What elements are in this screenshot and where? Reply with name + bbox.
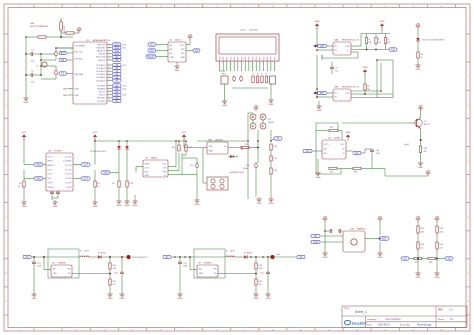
- svg-text:10k: 10k: [367, 89, 370, 91]
- svg-text:PC2 ADC2: PC2 ADC2: [96, 73, 105, 76]
- svg-text:10 OP2: 10 OP2: [65, 182, 71, 184]
- svg-text:1: 1: [109, 79, 110, 81]
- svg-text:SDA: SDA: [180, 56, 185, 59]
- svg-text:C14: C14: [183, 263, 186, 265]
- svg-text:10uH: 10uH: [230, 251, 235, 253]
- svg-text:+5V: +5V: [254, 105, 259, 108]
- svg-text:RST: RST: [60, 53, 65, 55]
- svg-text:OUT1: OUT1: [324, 144, 329, 146]
- svg-text:R27: R27: [415, 262, 418, 264]
- svg-text:D11: D11: [115, 51, 120, 53]
- svg-text:Sheet_1: Sheet_1: [355, 310, 367, 314]
- svg-text:PC6 RESET: PC6 RESET: [75, 45, 86, 47]
- svg-text:47k: 47k: [259, 284, 262, 286]
- svg-text:+5V: +5V: [378, 216, 383, 219]
- svg-text:GND: GND: [24, 102, 29, 104]
- svg-text:GND: GND: [32, 298, 37, 300]
- svg-text:9 ON2: 9 ON2: [66, 187, 71, 189]
- svg-text:10k: 10k: [368, 42, 371, 44]
- svg-text:PD7 AIN1: PD7 AIN1: [97, 84, 105, 87]
- svg-text:PD6 AIN0: PD6 AIN0: [97, 87, 105, 90]
- svg-text:TRIG: TRIG: [36, 165, 42, 167]
- svg-text:1: 1: [263, 63, 264, 65]
- svg-text:9V: 9V: [300, 257, 303, 259]
- svg-text:DB107: DB107: [268, 122, 275, 124]
- svg-text:S2-1272T-A4B3V0E: S2-1272T-A4B3V0E: [30, 25, 49, 28]
- svg-text:R16: R16: [274, 170, 277, 172]
- svg-text:1: 1: [109, 73, 110, 75]
- svg-text:1: 1: [230, 63, 231, 65]
- svg-text:+5V: +5V: [418, 105, 423, 108]
- svg-text:GND: GND: [93, 206, 98, 208]
- svg-text:GND: GND: [378, 257, 383, 259]
- svg-text:R25: R25: [440, 228, 443, 230]
- svg-text:PD2 INT0: PD2 INT0: [97, 101, 105, 103]
- svg-text:VCC: VCC: [162, 164, 167, 166]
- svg-text:GND: GND: [22, 206, 27, 208]
- svg-text:9V: 9V: [277, 139, 280, 141]
- svg-text:VO: VO: [224, 146, 227, 148]
- svg-text:R25: R25: [421, 228, 424, 230]
- svg-text:SW: SW: [53, 269, 56, 271]
- svg-text:PC2102W-4734+G: PC2102W-4734+G: [90, 151, 107, 153]
- svg-text:MT3608: MT3608: [58, 262, 66, 264]
- svg-text:GND: GND: [418, 167, 423, 169]
- svg-text:C13: C13: [246, 165, 249, 167]
- svg-text:AIN: AIN: [320, 45, 324, 48]
- svg-text:THR: THR: [162, 172, 167, 174]
- svg-text:1k: 1k: [97, 186, 99, 188]
- svg-text:GND: GND: [257, 203, 262, 205]
- svg-text:47k: 47k: [113, 284, 116, 286]
- svg-text:VCC: VCC: [22, 132, 27, 134]
- svg-text:+5V: +5V: [416, 23, 421, 26]
- svg-text:PB6 XTAL: PB6 XTAL: [75, 73, 84, 76]
- svg-text:1: 1: [245, 63, 246, 65]
- svg-text:BIN: BIN: [320, 93, 324, 95]
- svg-text:GND: GND: [266, 298, 271, 300]
- svg-text:1: 1: [109, 70, 110, 72]
- svg-text:GND: GND: [222, 105, 227, 107]
- svg-text:GND: GND: [380, 21, 385, 23]
- svg-text:GND: GND: [346, 132, 351, 134]
- svg-text:GND: GND: [75, 95, 80, 97]
- svg-text:VCC: VCC: [341, 144, 346, 146]
- svg-text:1: 1: [259, 63, 260, 65]
- svg-text:R22: R22: [354, 172, 357, 174]
- svg-text:REF 2: REF 2: [48, 161, 53, 163]
- svg-text:LF2 5: LF2 5: [48, 174, 53, 176]
- svg-text:+5V: +5V: [188, 34, 193, 37]
- svg-text:GND: GND: [269, 104, 274, 106]
- svg-text:1: 1: [109, 46, 110, 48]
- svg-text:1: 1: [109, 93, 110, 95]
- svg-text:GND: GND: [254, 298, 259, 300]
- svg-text:C14: C14: [37, 263, 40, 265]
- svg-text:R14: R14: [274, 146, 277, 148]
- svg-text:VW-VCXE VCC: VW-VCXE VCC: [132, 257, 148, 259]
- svg-text:SCL: SCL: [150, 45, 155, 47]
- svg-text:11 ON1: 11 ON1: [65, 178, 71, 180]
- svg-text:47k: 47k: [424, 151, 427, 153]
- svg-text:4x1N4007 SOD: 4x1N4007 SOD: [230, 172, 244, 174]
- svg-text:IN 6: IN 6: [48, 178, 51, 180]
- svg-text:1: 1: [237, 63, 238, 65]
- svg-text:BC547: BC547: [424, 124, 430, 126]
- svg-text:GND: GND: [315, 21, 320, 23]
- svg-text:+5V: +5V: [77, 27, 82, 30]
- svg-text:Drawn By:: Drawn By:: [400, 324, 410, 327]
- svg-text:LCD1602: LCD1602: [249, 30, 259, 32]
- svg-text:MT3608: MT3608: [204, 262, 212, 264]
- svg-text:VIN: VIN: [209, 146, 213, 148]
- svg-text:R24: R24: [259, 281, 262, 283]
- svg-text:DC: DC: [355, 153, 359, 155]
- svg-text:10k: 10k: [378, 42, 381, 44]
- svg-text:15 DGND: 15 DGND: [63, 161, 72, 163]
- svg-text:100k: 100k: [421, 232, 425, 234]
- svg-text:1: 1: [256, 63, 257, 65]
- svg-text:GND: GND: [53, 206, 58, 208]
- svg-text:R11: R11: [172, 147, 175, 149]
- svg-text:+5V: +5V: [416, 216, 421, 219]
- svg-text:100k: 100k: [440, 232, 444, 234]
- svg-text:IN-: IN-: [335, 50, 338, 52]
- svg-text:OUT: OUT: [83, 179, 88, 181]
- svg-text:1: 1: [241, 63, 242, 65]
- svg-text:R23: R23: [113, 265, 116, 267]
- svg-text:RX: RX: [61, 60, 65, 62]
- svg-text:PB3 MOSI: PB3 MOSI: [97, 51, 106, 53]
- svg-text:Cds1: Cds1: [404, 144, 410, 146]
- svg-text:Company:: Company:: [367, 319, 377, 321]
- svg-text:GND: GND: [125, 205, 130, 207]
- svg-text:OUT: OUT: [83, 165, 88, 167]
- svg-text:D2 SS34: D2 SS34: [244, 253, 252, 255]
- svg-text:PT2399: PT2399: [54, 150, 62, 152]
- svg-text:1: 1: [267, 63, 268, 65]
- svg-text:1: 1: [219, 63, 220, 65]
- svg-text:220k: 220k: [259, 268, 263, 270]
- svg-text:IN1-: IN1-: [324, 149, 328, 151]
- svg-text:PD4 T0: PD4 T0: [99, 95, 105, 97]
- svg-text:5V: 5V: [166, 257, 169, 259]
- svg-text:R26: R26: [421, 244, 424, 246]
- svg-text:D2 SS34: D2 SS34: [98, 253, 106, 255]
- svg-text:Sheet:: Sheet:: [438, 318, 445, 321]
- svg-text:GND: GND: [63, 95, 68, 97]
- svg-text:GND: GND: [175, 70, 180, 72]
- svg-text:RomanZuniga: RomanZuniga: [417, 325, 432, 327]
- svg-text:PC4 ADC4: PC4 ADC4: [96, 67, 105, 70]
- svg-text:R23: R23: [259, 265, 262, 267]
- svg-text:Cds: Cds: [376, 150, 380, 152]
- svg-text:TRIG: TRIG: [103, 173, 109, 175]
- svg-text:GND: GND: [195, 204, 200, 206]
- svg-text:IN-: IN-: [335, 97, 338, 99]
- svg-text:SDA: SDA: [150, 50, 155, 53]
- svg-text:12 OP1: 12 OP1: [65, 174, 71, 176]
- svg-text:TRIG: TRIG: [36, 179, 42, 181]
- svg-text:HG7881CP-A +5V: HG7881CP-A +5V: [342, 38, 360, 41]
- svg-text:1: 1: [109, 49, 110, 51]
- svg-text:1: 1: [109, 43, 110, 45]
- svg-text:Your Company: Your Company: [385, 318, 402, 321]
- svg-text:R17: R17: [330, 127, 333, 129]
- svg-text:PD3 INT1: PD3 INT1: [97, 98, 105, 100]
- svg-text:VIN 5V: VIN 5V: [64, 26, 66, 33]
- svg-text:PB4 MISO: PB4 MISO: [97, 47, 106, 49]
- svg-text:GND: GND: [323, 257, 328, 259]
- svg-text:PC0 ADC0: PC0 ADC0: [96, 79, 105, 82]
- svg-text:TX: TX: [61, 74, 64, 76]
- svg-text:GND: GND: [120, 298, 125, 300]
- svg-text:PB2 SS: PB2 SS: [99, 54, 106, 56]
- svg-text:2023-08-19: 2023-08-19: [378, 325, 390, 327]
- svg-text:LM393: LM393: [334, 137, 341, 139]
- svg-text:PD1 TXD: PD1 TXD: [75, 51, 84, 53]
- svg-text:D10: D10: [115, 54, 120, 56]
- svg-text:GND: GND: [363, 67, 368, 69]
- svg-text:GND: GND: [53, 273, 58, 275]
- svg-text:GND: GND: [269, 203, 274, 205]
- svg-text:AGND 3: AGND 3: [48, 164, 55, 167]
- svg-text:NE555: NE555: [151, 157, 158, 159]
- svg-text:PC123-NP-A7SH-E: PC123-NP-A7SH-E: [428, 39, 445, 42]
- svg-text:GND: GND: [117, 205, 122, 207]
- svg-text:1: 1: [109, 90, 110, 92]
- svg-text:R21: R21: [330, 172, 333, 174]
- svg-text:PAM8403: PAM8403: [357, 227, 367, 230]
- svg-text:REV:: REV:: [438, 310, 444, 312]
- svg-text:+5V: +5V: [435, 216, 440, 219]
- svg-text:I2: I2: [343, 153, 345, 155]
- svg-text:OUT 7: OUT 7: [48, 182, 54, 184]
- svg-text:C15: C15: [260, 273, 263, 275]
- svg-text:INR: INR: [314, 242, 318, 244]
- svg-text:1: 1: [109, 76, 110, 78]
- svg-text:1: 1: [270, 63, 271, 65]
- svg-text:1: 1: [252, 63, 253, 65]
- svg-text:10k: 10k: [387, 42, 390, 44]
- svg-text:5V: 5V: [26, 257, 29, 259]
- svg-text:AO1: AO1: [391, 49, 396, 52]
- svg-text:SW: SW: [199, 269, 202, 271]
- svg-text:R13: R13: [245, 144, 248, 146]
- svg-text:470uF: 470uF: [243, 168, 249, 170]
- svg-text:R10: R10: [130, 183, 133, 185]
- svg-text:TRIG: TRIG: [145, 164, 150, 166]
- svg-text:R26: R26: [440, 244, 443, 246]
- svg-text:GND: GND: [133, 205, 138, 207]
- svg-text:U2A: U2A: [334, 38, 339, 41]
- svg-text:1: 1: [109, 52, 110, 54]
- svg-text:GND: GND: [178, 298, 183, 300]
- svg-text:R9: R9: [112, 183, 114, 185]
- svg-text:220k: 220k: [113, 268, 117, 270]
- svg-text:1: 1: [109, 59, 110, 61]
- svg-text:GND: GND: [435, 277, 440, 279]
- svg-text:24C02: 24C02: [175, 40, 182, 42]
- svg-text:PD5 T1: PD5 T1: [99, 92, 105, 94]
- svg-text:14 CC0: 14 CC0: [65, 165, 71, 167]
- svg-text:ATMEGA328P-PU: ATMEGA328P-PU: [93, 39, 111, 42]
- svg-text:10k: 10k: [440, 248, 443, 250]
- svg-text:C15: C15: [114, 273, 117, 275]
- svg-text:GND: GND: [170, 57, 175, 59]
- svg-text:VREF 8: VREF 8: [48, 187, 55, 189]
- svg-text:GND: GND: [145, 175, 150, 177]
- svg-text:GND: GND: [108, 298, 113, 300]
- svg-text:1: 1: [109, 64, 110, 66]
- svg-text:RESET: RESET: [147, 57, 155, 59]
- svg-text:VCC: VCC: [182, 132, 187, 134]
- svg-text:SPK: SPK: [382, 239, 387, 241]
- svg-text:GND: GND: [317, 110, 322, 112]
- svg-text:1: 1: [109, 55, 110, 57]
- svg-text:1: 1: [109, 87, 110, 89]
- svg-text:LCD1: LCD1: [240, 30, 246, 32]
- svg-text:1: 1: [274, 63, 275, 65]
- svg-text:1: 1: [223, 63, 224, 65]
- svg-text:PB5 SCK: PB5 SCK: [98, 44, 107, 46]
- svg-text:VCC: VCC: [180, 45, 185, 47]
- svg-text:PB0 ICP: PB0 ICP: [98, 60, 106, 62]
- svg-text:PC5 ADC5: PC5 ADC5: [96, 64, 105, 67]
- svg-text:16 CLK: 16 CLK: [65, 156, 72, 158]
- svg-text:+5V: +5V: [323, 216, 328, 219]
- svg-text:PC3 ADC3: PC3 ADC3: [96, 70, 105, 73]
- svg-text:GND: GND: [75, 88, 80, 90]
- svg-text:GND: GND: [416, 69, 421, 71]
- svg-text:C12: C12: [190, 165, 193, 167]
- svg-text:D13: D13: [115, 45, 120, 47]
- svg-text:R24: R24: [113, 281, 116, 283]
- svg-text:EasyEDA: EasyEDA: [352, 321, 367, 325]
- svg-text:PB1 OC1A: PB1 OC1A: [96, 56, 106, 59]
- svg-text:+9V: +9V: [426, 170, 431, 173]
- svg-text:1k: 1k: [421, 57, 423, 59]
- svg-text:1k: 1k: [18, 186, 20, 188]
- svg-text:1: 1: [109, 100, 110, 102]
- svg-text:1.0: 1.0: [449, 309, 453, 312]
- svg-text:1: 1: [109, 96, 110, 98]
- svg-text:GND: GND: [416, 277, 421, 279]
- svg-text:R28: R28: [429, 262, 432, 264]
- svg-text:VCC: VCC: [93, 132, 98, 134]
- svg-text:10k: 10k: [421, 248, 424, 250]
- svg-text:R20: R20: [424, 148, 427, 150]
- svg-text:5516: 5516: [376, 153, 380, 155]
- svg-text:LF1 4: LF1 4: [48, 169, 53, 171]
- svg-text:10uH: 10uH: [84, 251, 89, 253]
- svg-text:R15: R15: [274, 158, 277, 160]
- svg-text:WP: WP: [195, 51, 199, 53]
- svg-text:GND: GND: [63, 88, 68, 90]
- svg-text:PD0 RXD: PD0 RXD: [75, 58, 84, 60]
- svg-text:GND: GND: [199, 273, 204, 275]
- svg-text:TITLE:: TITLE:: [344, 308, 350, 310]
- svg-text:GND: GND: [209, 151, 214, 153]
- svg-text:PC1 ADC1: PC1 ADC1: [96, 76, 105, 79]
- svg-text:HG7881CP-B +5V: HG7881CP-B +5V: [342, 86, 360, 88]
- svg-text:U2B: U2B: [334, 86, 339, 88]
- svg-text:VCC 1: VCC 1: [48, 156, 54, 158]
- svg-text:1: 1: [109, 67, 110, 69]
- svg-text:D12: D12: [115, 48, 120, 50]
- svg-text:AIN: AIN: [306, 150, 310, 153]
- svg-text:1: 1: [248, 63, 249, 65]
- svg-text:O2: O2: [342, 149, 345, 151]
- svg-text:1: 1: [226, 63, 227, 65]
- svg-text:1: 1: [234, 63, 235, 65]
- svg-text:Date:: Date:: [367, 324, 373, 327]
- svg-text:+9V: +9V: [276, 254, 280, 256]
- svg-text:GND: GND: [316, 177, 321, 179]
- svg-text:1: 1: [109, 84, 110, 86]
- svg-text:13 CC1: 13 CC1: [65, 169, 71, 171]
